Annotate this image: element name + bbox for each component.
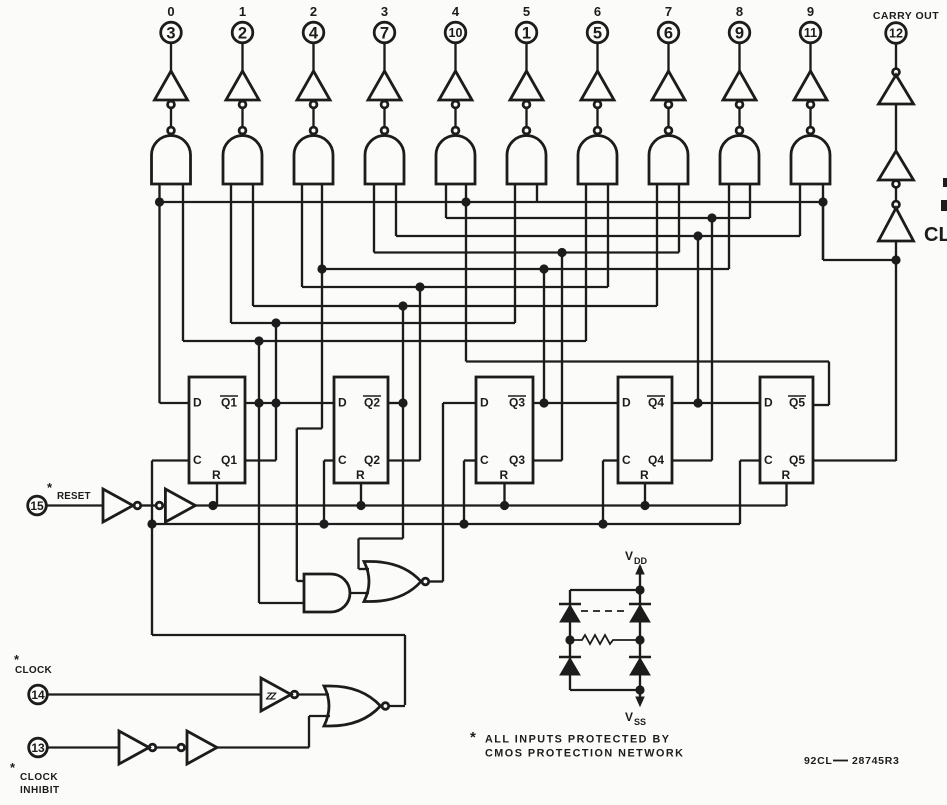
svg-text:Q4: Q4 <box>648 396 664 410</box>
svg-text:2: 2 <box>310 4 317 19</box>
svg-text:15: 15 <box>30 499 44 513</box>
svg-text:ALL INPUTS PROTECTED BY: ALL INPUTS PROTECTED BY <box>485 734 670 746</box>
svg-text:INHIBIT: INHIBIT <box>20 785 60 796</box>
svg-text:92CL: 92CL <box>804 755 832 767</box>
svg-text:8: 8 <box>736 4 743 19</box>
svg-text:5: 5 <box>523 4 530 19</box>
svg-text:28745R3: 28745R3 <box>852 755 900 767</box>
svg-text:C: C <box>622 453 631 467</box>
svg-text:R: R <box>356 468 365 482</box>
svg-text:10: 10 <box>449 26 463 40</box>
svg-text:CMOS PROTECTION NETWORK: CMOS PROTECTION NETWORK <box>485 748 684 760</box>
svg-text:Q1: Q1 <box>221 396 237 410</box>
svg-text:Q3: Q3 <box>509 396 525 410</box>
svg-text:CLOCK: CLOCK <box>15 665 53 676</box>
svg-text:R: R <box>782 468 791 482</box>
svg-text:Q3: Q3 <box>509 453 525 467</box>
svg-text:SS: SS <box>634 717 646 727</box>
svg-text:*: * <box>470 729 476 746</box>
svg-text:12: 12 <box>889 27 903 41</box>
svg-text:7: 7 <box>380 24 389 42</box>
svg-text:13: 13 <box>31 741 45 755</box>
svg-text:CL: CL <box>924 224 947 246</box>
svg-text:D: D <box>480 396 489 410</box>
svg-text:3: 3 <box>166 24 175 42</box>
svg-text:Q2: Q2 <box>364 453 380 467</box>
svg-text:5: 5 <box>593 24 602 42</box>
svg-text:V: V <box>625 549 633 563</box>
svg-text:R: R <box>500 468 509 482</box>
svg-text:14: 14 <box>31 688 45 702</box>
svg-text:4: 4 <box>309 24 319 42</box>
svg-text:Q5: Q5 <box>789 396 805 410</box>
svg-text:R: R <box>212 468 221 482</box>
svg-text:D: D <box>622 396 631 410</box>
svg-text:6: 6 <box>664 24 673 42</box>
svg-text:CLOCK: CLOCK <box>20 772 58 783</box>
svg-text:R: R <box>640 468 649 482</box>
svg-text:11: 11 <box>804 26 817 40</box>
svg-text:4: 4 <box>452 4 460 19</box>
svg-text:RESET: RESET <box>57 491 91 502</box>
svg-text:C: C <box>338 453 347 467</box>
svg-text:1: 1 <box>239 4 246 19</box>
svg-text:9: 9 <box>807 4 814 19</box>
svg-text:7: 7 <box>665 4 672 19</box>
svg-text:Q2: Q2 <box>364 396 380 410</box>
svg-text:V: V <box>625 710 633 724</box>
svg-text:D: D <box>764 396 773 410</box>
svg-text:C: C <box>193 453 202 467</box>
svg-text:2: 2 <box>238 24 247 42</box>
svg-text:9: 9 <box>735 24 744 42</box>
svg-text:D: D <box>338 396 347 410</box>
svg-text:1: 1 <box>522 24 531 42</box>
svg-text:3: 3 <box>381 4 388 19</box>
svg-text:C: C <box>480 453 489 467</box>
svg-text:CARRY OUT: CARRY OUT <box>873 10 939 22</box>
svg-text:Q1: Q1 <box>221 453 237 467</box>
svg-text:Q5: Q5 <box>789 453 805 467</box>
svg-text:6: 6 <box>594 4 601 19</box>
svg-text:D: D <box>193 396 202 410</box>
svg-text:C: C <box>764 453 773 467</box>
svg-text:Q4: Q4 <box>648 453 664 467</box>
svg-text:0: 0 <box>167 4 174 19</box>
svg-text:DD: DD <box>634 556 647 566</box>
